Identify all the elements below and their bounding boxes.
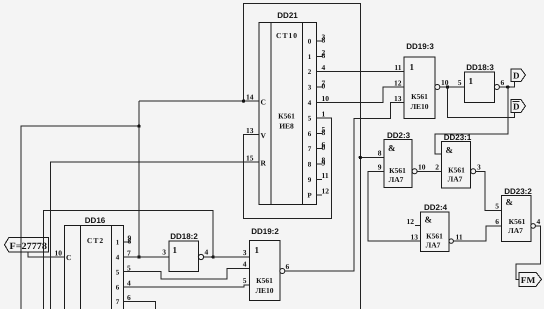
nand U-DD23.2 <box>502 195 531 241</box>
svg-text:D: D <box>513 102 520 112</box>
svg-text:4: 4 <box>127 279 131 288</box>
svg-text:0: 0 <box>322 82 326 91</box>
svg-text:6: 6 <box>501 78 505 87</box>
svg-text:DD18:2: DD18:2 <box>170 232 198 241</box>
wire: horizontal into DD21 pin14 C <box>139 100 259 102</box>
svg-text:К561: К561 <box>389 166 406 175</box>
DD16 row pin numbers <box>127 234 132 303</box>
svg-text:7: 7 <box>127 249 131 258</box>
svg-text:8: 8 <box>378 149 382 158</box>
svg-text:13: 13 <box>394 94 402 103</box>
wire: F connector tab to DD16 C pin10 <box>28 252 65 257</box>
svg-text:К561: К561 <box>448 166 465 175</box>
svg-text:11: 11 <box>394 63 401 72</box>
svg-text:6: 6 <box>116 284 120 292</box>
svg-text:DD23:2: DD23:2 <box>504 187 532 196</box>
svg-text:6: 6 <box>286 262 290 271</box>
svg-text:DD16: DD16 <box>85 216 106 225</box>
svg-text:0: 0 <box>308 38 312 46</box>
svg-text:D: D <box>513 71 520 81</box>
svg-text:R: R <box>261 159 267 168</box>
svg-text:14: 14 <box>246 93 254 102</box>
wire: DD23.1 out to DD23.2 pin5 <box>476 171 502 210</box>
wire: DD16 Q5(pin5) jog to DD19.2 pin4 <box>124 269 250 279</box>
wire: DD19.2 output up to DD19.3 pin13 <box>285 103 404 272</box>
svg-text:5: 5 <box>116 269 120 277</box>
svg-text:12: 12 <box>394 78 402 87</box>
wire: tab up to D connector <box>508 81 515 87</box>
svg-text:CT10: CT10 <box>276 31 298 40</box>
svg-text:4: 4 <box>243 260 247 269</box>
DD16 row digits <box>116 239 120 307</box>
svg-text:4: 4 <box>308 99 312 107</box>
svg-text:3: 3 <box>243 248 247 257</box>
counter U-DD21 box <box>259 23 317 205</box>
svg-text:5: 5 <box>495 202 499 211</box>
DD16 pin 9 stub row1 <box>124 241 132 243</box>
svg-text:1: 1 <box>308 53 312 61</box>
svg-text:ИЕ8: ИЕ8 <box>279 122 294 131</box>
svg-text:3: 3 <box>308 84 312 92</box>
DD21 output row digits inside column <box>307 38 312 200</box>
svg-text:ЛА7: ЛА7 <box>389 175 404 184</box>
wire: DD16 Q6(pin4) to DD19.2 pin5 <box>124 285 250 287</box>
svg-text:1: 1 <box>469 76 474 86</box>
svg-text:C: C <box>66 253 71 262</box>
svg-text:1: 1 <box>116 239 120 247</box>
svg-text:4: 4 <box>116 254 120 262</box>
svg-text:7: 7 <box>116 298 120 306</box>
svg-text:1: 1 <box>322 109 326 118</box>
svg-text:7: 7 <box>308 145 312 153</box>
svg-text:C: C <box>261 98 266 107</box>
wire: reset feed from DD18.2 output <box>43 211 213 309</box>
DD2.4 pin 12 stub <box>415 225 420 227</box>
DD19.2 output bubble <box>280 269 285 274</box>
svg-text:13: 13 <box>411 233 419 242</box>
svg-text:8: 8 <box>322 128 326 137</box>
wire: DD16 Q4 up-branch to DD21 clock (vertical x139) <box>138 101 140 257</box>
svg-text:DD21: DD21 <box>277 11 298 20</box>
DD23.2 output bubble <box>531 224 536 229</box>
svg-text:10: 10 <box>418 163 426 172</box>
svg-text:1: 1 <box>410 62 415 72</box>
nand U-DD2.4 <box>421 212 450 252</box>
inverter U-DD18.3 <box>465 72 495 103</box>
svg-text:3: 3 <box>477 163 481 172</box>
svg-text:&: & <box>446 145 454 155</box>
svg-text:6: 6 <box>495 217 499 226</box>
svg-text:6: 6 <box>127 293 131 302</box>
svg-text:6: 6 <box>322 51 326 60</box>
svg-text:10: 10 <box>55 249 63 258</box>
wire: left branch at y126 <box>21 126 139 309</box>
inverter U-DD18.2 <box>169 241 198 271</box>
svg-text:9: 9 <box>322 159 326 168</box>
connector F=27778 input flag <box>5 237 49 252</box>
svg-text:DD23:1: DD23:1 <box>444 133 472 142</box>
svg-text:2: 2 <box>435 163 439 172</box>
svg-text:5: 5 <box>308 114 312 122</box>
svg-text:4: 4 <box>205 248 209 257</box>
svg-text:8: 8 <box>322 36 326 45</box>
DD23.1 output bubble <box>471 169 476 174</box>
nand U-DD23.1 <box>442 142 471 189</box>
nor3 U-DD19.2 <box>249 240 279 300</box>
wire: DD2.4 out to DD23.2 pin6 <box>453 226 501 241</box>
svg-text:P: P <box>307 191 312 199</box>
svg-text:2: 2 <box>308 68 312 76</box>
svg-text:DD2:4: DD2:4 <box>424 203 448 212</box>
wire: DD16 Q4(pin7) to DD18.2 pin3 <box>124 256 170 258</box>
svg-text:5: 5 <box>243 276 247 285</box>
svg-text:CT2: CT2 <box>87 236 104 245</box>
DD19.3 output bubble <box>435 85 440 90</box>
wire: down to DD23.1 pin1 <box>435 87 508 154</box>
svg-text:5: 5 <box>458 78 462 87</box>
junction dots clock net <box>242 99 245 102</box>
svg-text:DD19:2: DD19:2 <box>251 227 279 236</box>
svg-text:ЛА7: ЛА7 <box>448 175 463 184</box>
svg-text:К561: К561 <box>278 112 295 121</box>
svg-text:К561: К561 <box>509 217 526 226</box>
svg-text:ЛЕ10: ЛЕ10 <box>255 286 273 295</box>
nor3 U-DD19.3 <box>404 57 435 119</box>
svg-text:DD19:3: DD19:3 <box>406 42 434 51</box>
svg-text:FM: FM <box>521 275 536 285</box>
wire: DD21 out0(pin1 row5) to V pin13 loop <box>244 118 332 219</box>
svg-text:9: 9 <box>308 176 312 184</box>
svg-text:13: 13 <box>246 126 254 135</box>
counter U-DD16 box <box>65 226 124 309</box>
svg-text:&: & <box>506 197 514 207</box>
svg-text:0: 0 <box>322 143 326 152</box>
svg-text:DD18:3: DD18:3 <box>466 63 494 72</box>
svg-text:12: 12 <box>407 217 415 226</box>
svg-text:15: 15 <box>246 154 254 163</box>
wire: DD18.2 out to DD19.2 pin3 <box>204 256 250 258</box>
svg-text:1: 1 <box>255 245 260 255</box>
wire: DD2.3 out to DD23.1 pin2 <box>417 170 442 172</box>
svg-text:1: 1 <box>173 245 178 255</box>
wire: DD2.3 pin9 tied to DD2.4 pin13 <box>368 171 421 241</box>
svg-text:11: 11 <box>322 171 329 180</box>
DD18.3 output bubble <box>494 85 499 90</box>
svg-text:К561: К561 <box>426 232 443 241</box>
svg-text:12: 12 <box>322 186 330 195</box>
DD2.3 output bubble <box>412 169 417 174</box>
svg-text:ЛА7: ЛА7 <box>508 226 523 235</box>
wire: DD19.3 out to DD18.3 in <box>440 86 465 88</box>
connector FM output flag <box>519 272 542 286</box>
svg-text:&: & <box>388 143 396 153</box>
wire: DD2.3 pin8 tap <box>360 156 384 158</box>
svg-text:9: 9 <box>378 163 382 172</box>
DD21 output pin stubs <box>316 41 322 195</box>
connector D output flag <box>511 69 526 81</box>
svg-text:3: 3 <box>162 248 166 257</box>
wire: DD21 out4 (pin10) to DD19.3 pin12 <box>316 87 404 103</box>
wire: DD21 out2 (pin4) to DD19.3 pin11 <box>316 71 404 73</box>
wire: DD18.3 out to D connector <box>499 86 507 88</box>
svg-text:8: 8 <box>308 161 312 169</box>
svg-text:10: 10 <box>322 94 330 103</box>
nand U-DD2.3 <box>384 140 412 188</box>
svg-text:6: 6 <box>308 130 312 138</box>
wire: branch to notD connector <box>448 87 515 118</box>
svg-text:V: V <box>261 131 267 140</box>
DD18.2 output bubble <box>198 254 203 259</box>
wire: DD23.2 out to FM connector <box>516 226 540 279</box>
DD2.4 output bubble <box>449 239 453 243</box>
DD21 output pin numbers (doubled-glyph artifacts) <box>322 33 330 196</box>
svg-text:4: 4 <box>322 63 326 72</box>
svg-text:11: 11 <box>456 233 463 242</box>
wire: DD21 reset R from below-left <box>51 162 259 309</box>
svg-text:DD2:3: DD2:3 <box>387 131 411 140</box>
svg-text:ЛЕ10: ЛЕ10 <box>410 102 428 111</box>
wire: DD16 Q7(pin6) down <box>124 302 156 309</box>
svg-text:&: & <box>425 215 433 225</box>
wire: clock net top riser <box>244 4 361 309</box>
svg-text:4: 4 <box>537 217 541 226</box>
svg-text:F=27778: F=27778 <box>10 242 48 252</box>
svg-text:К561: К561 <box>256 276 273 285</box>
svg-text:ЛА7: ЛА7 <box>426 241 441 250</box>
svg-text:К561: К561 <box>411 92 428 101</box>
svg-text:8: 8 <box>128 237 132 246</box>
connector notD output flag <box>511 100 526 113</box>
